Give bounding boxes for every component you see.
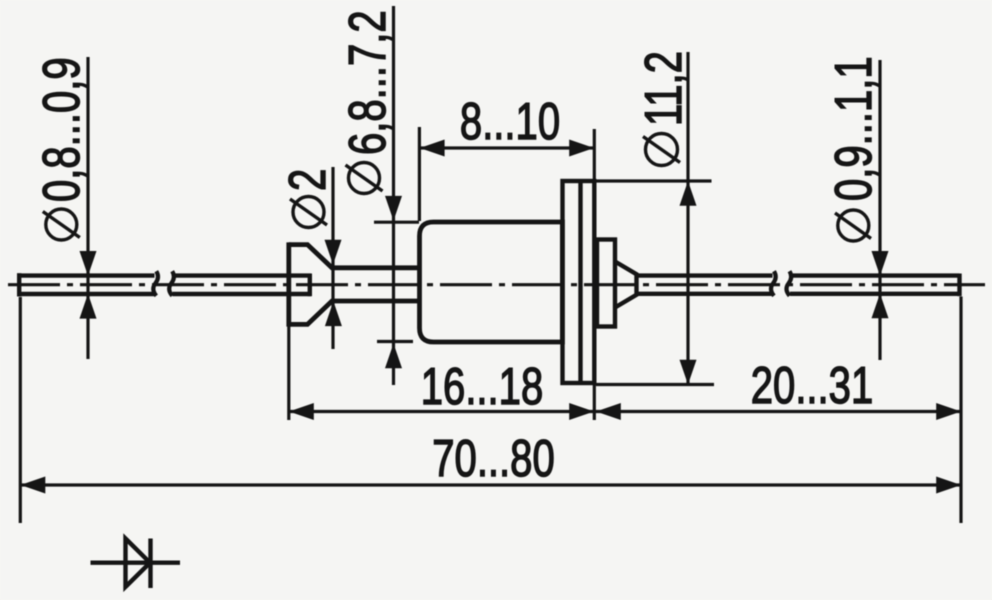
- right lead segment 1: [636, 276, 773, 294]
- extension line flange-right (shared): [593, 129, 596, 420]
- body (cylinder): [420, 222, 563, 342]
- d0.8-0.9 arrows: [80, 251, 97, 276]
- label d11.2: [634, 51, 692, 165]
- extension body bottom-left: [377, 340, 413, 343]
- cone right: [615, 262, 637, 308]
- left lead segment 1: [17, 273, 155, 296]
- dim line 8-10: [420, 146, 595, 149]
- extension body top-left: [374, 221, 419, 224]
- 20-31 arrows: [596, 403, 621, 420]
- d2 arrows: [325, 240, 342, 265]
- svg-text:70...80: 70...80: [432, 429, 554, 487]
- label d2: [278, 169, 336, 228]
- svg-text:2: 2: [278, 169, 336, 191]
- break symbol right lead: [771, 271, 791, 296]
- bell (front cone cap): [289, 242, 420, 326]
- right lead segment 2: [790, 274, 960, 297]
- break symbol left lead: [153, 271, 174, 296]
- diode symbol: [91, 539, 181, 589]
- dim line d0.9-1.1: [878, 60, 881, 360]
- d11.2 arrows: [680, 181, 697, 206]
- 8-10 arrows: [420, 140, 445, 157]
- label d0.8-0.9: [32, 57, 90, 240]
- svg-text:0,9...1,1: 0,9...1,1: [824, 56, 882, 201]
- left lead segment 2: [173, 274, 312, 297]
- dim line d2: [331, 167, 334, 349]
- svg-text:0,8...0,9: 0,8...0,9: [32, 57, 90, 202]
- cap (right): [597, 240, 615, 327]
- 16-18 arrows: [289, 403, 314, 420]
- label d6.8-7.2: [338, 10, 396, 193]
- extension flange OD bottom: [596, 383, 714, 386]
- svg-text:11,2: 11,2: [634, 51, 692, 126]
- extension line left (70..80): [19, 297, 22, 523]
- svg-text:8...10: 8...10: [460, 92, 560, 150]
- arrowheads: [21, 140, 962, 494]
- svg-text:16...18: 16...18: [421, 357, 543, 415]
- svg-text:6,8...7,2: 6,8...7,2: [338, 10, 396, 155]
- dim line d11.2: [686, 52, 689, 385]
- dim line d0.8-0.9: [86, 57, 89, 359]
- dim line 16-18: [289, 410, 594, 413]
- extension flange OD top: [596, 179, 712, 182]
- svg-text:20...31: 20...31: [751, 356, 873, 414]
- flange (disc): [563, 181, 595, 383]
- extension line body-left (8..10): [418, 127, 421, 221]
- d6.8-7.2 arrows: [385, 196, 402, 221]
- dim line 20-31: [594, 410, 961, 413]
- dim line 70-80: [21, 483, 962, 486]
- extension line bell-left (16..18): [287, 326, 290, 420]
- d0.9-1.1 arrows: [872, 251, 889, 276]
- centerline (axis): [8, 283, 985, 286]
- dim line d6.8-7.2: [392, 6, 395, 385]
- 70-80 arrows: [21, 477, 46, 494]
- extension line right (20..31 / 70..80): [959, 297, 962, 524]
- label d0.9-1.1: [824, 56, 882, 241]
